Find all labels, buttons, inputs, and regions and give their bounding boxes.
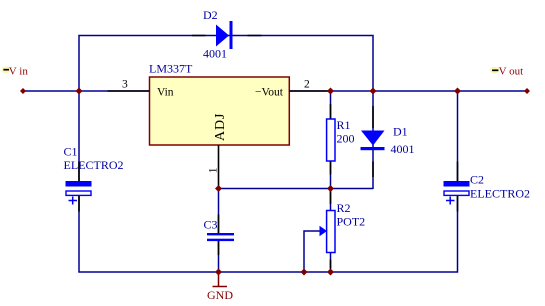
svg-text:R1: R1 bbox=[337, 118, 351, 132]
wire C2 vertical upper bbox=[457, 91, 459, 181]
svg-text:Vin: Vin bbox=[157, 87, 174, 99]
svg-text:4001: 4001 bbox=[391, 142, 415, 156]
svg-text:−Vout: −Vout bbox=[255, 87, 284, 99]
svg-text:D1: D1 bbox=[393, 125, 408, 139]
junction R1 top bbox=[327, 88, 334, 95]
node -V out terminal bbox=[524, 88, 530, 94]
svg-text:ADJ: ADJ bbox=[213, 113, 228, 141]
wire ADJ net horizontal bbox=[219, 188, 374, 190]
junction at input rail bbox=[76, 88, 83, 95]
node -V in terminal bbox=[20, 88, 26, 94]
svg-text:C2: C2 bbox=[470, 173, 484, 187]
junction ADJ R1/R2 bbox=[327, 185, 334, 192]
svg-text:R2: R2 bbox=[337, 201, 351, 215]
svg-text:4001: 4001 bbox=[203, 47, 227, 61]
potentiometer R2 POT2 bbox=[320, 191, 366, 269]
port -V in bbox=[1, 66, 28, 78]
regulator IC LM337T bbox=[149, 62, 289, 146]
pin 1 of U1 (ADJ) bbox=[208, 145, 220, 189]
junction C2 top bbox=[454, 88, 461, 95]
wire bottom ground net bbox=[79, 196, 458, 272]
diode D2 bbox=[192, 8, 262, 61]
junction ground C3 bbox=[215, 269, 222, 276]
svg-text:ELECTRO2: ELECTRO2 bbox=[470, 187, 530, 201]
svg-text:1: 1 bbox=[208, 167, 220, 173]
junction D1 top bbox=[370, 88, 377, 95]
capacitor C1 (electrolytic) bbox=[64, 145, 124, 212]
svg-text:LM337T: LM337T bbox=[149, 62, 193, 76]
wire R2 wiper connection bbox=[304, 231, 320, 272]
diode D1 bbox=[361, 106, 415, 177]
port -V out bbox=[490, 66, 523, 78]
svg-text:2: 2 bbox=[304, 79, 310, 91]
wire C3 vertical bbox=[218, 189, 220, 273]
pin 3 of U1 bbox=[108, 79, 150, 92]
svg-text:200: 200 bbox=[337, 131, 355, 145]
svg-text:V in: V in bbox=[9, 66, 29, 78]
ground symbol GND bbox=[207, 272, 233, 302]
svg-text:V out: V out bbox=[499, 66, 524, 78]
pin 2 of U1 bbox=[289, 79, 331, 92]
svg-text:C1: C1 bbox=[64, 145, 78, 159]
svg-text:3: 3 bbox=[122, 79, 128, 91]
junction ADJ pin1 bbox=[215, 185, 222, 192]
junction ground wiper bbox=[301, 269, 308, 276]
svg-text:ELECTRO2: ELECTRO2 bbox=[64, 158, 124, 172]
wire R1 R2 branch vertical bbox=[330, 91, 332, 272]
svg-text:GND: GND bbox=[207, 288, 233, 302]
capacitor C2 (electrolytic) bbox=[444, 162, 531, 212]
svg-text:C3: C3 bbox=[204, 218, 218, 232]
svg-text:D2: D2 bbox=[203, 8, 218, 22]
wire top net from -Vin rail through D2 to D1 branch bbox=[79, 36, 373, 190]
junction ground R2 bbox=[327, 269, 334, 276]
wire main horizontal -Vin/-Vout net bbox=[23, 90, 527, 92]
svg-text:POT2: POT2 bbox=[337, 215, 366, 229]
resistor R1 bbox=[327, 104, 355, 175]
capacitor C3 bbox=[204, 215, 235, 256]
